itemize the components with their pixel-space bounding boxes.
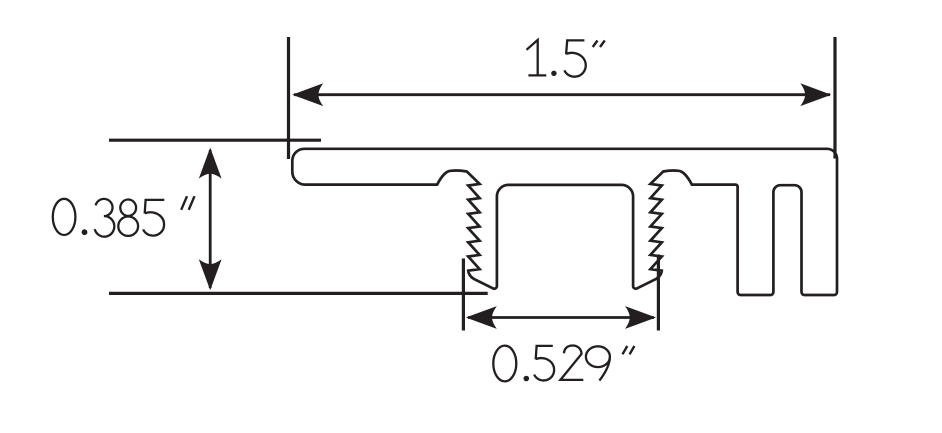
label 1.5" : digit 5: [565, 40, 586, 76]
dimension 0.529 inch : right arrowhead: [625, 306, 656, 329]
label 0.529" : digit 0: [493, 346, 634, 382]
dimension 0.385 inch : up arrowhead: [199, 148, 222, 179]
label 0.529" : double prime: [623, 346, 635, 354]
profile outline of molding cross-section: [292, 149, 837, 295]
dimension 0.385 inch : dimension line shaft: [209, 150, 212, 288]
dimension 0.529 inch : left arrowhead: [466, 306, 497, 329]
dimension 1.5 inch : left arrowhead: [292, 83, 323, 106]
dimension 0.529 inch : right extension line: [657, 255, 660, 331]
label 0.385" : digit 3: [95, 199, 115, 237]
dimension 0.385 inch : down arrowhead: [199, 259, 222, 290]
label 0.385" : double prime: [181, 196, 194, 210]
dimension 0.529 inch : dimension line shaft: [468, 316, 654, 319]
label 0.385" : digit 5: [143, 200, 164, 236]
label 1.5" : decimal point: [551, 71, 556, 76]
label 0.529" : digit 2: [560, 346, 583, 380]
label 0.529" : digit 9: [586, 346, 610, 367]
label 1.5" : digit 1: [527, 40, 605, 77]
label 0.385" : digit 0: [53, 196, 195, 236]
label 0.385" : digit 8: [120, 200, 136, 216]
dimension 0.385 inch : top extension line: [109, 139, 321, 142]
dimension 0.385 inch : bottom extension line: [109, 292, 488, 295]
dimension 1.5 inch : right extension line: [833, 37, 836, 159]
label 0.529" : decimal point: [524, 376, 530, 382]
dimension 1.5 inch : dimension line shaft: [294, 93, 830, 96]
dimension 1.5 inch : left extension line: [287, 37, 290, 159]
label 1.5" : double prime: [593, 41, 605, 48]
label 0.529" : digit 5: [534, 346, 554, 381]
dimension 1.5 inch : right arrowhead: [800, 83, 831, 106]
dimension 0.529 inch : left extension line: [462, 259, 465, 331]
label 0.385" : decimal point: [82, 229, 88, 235]
